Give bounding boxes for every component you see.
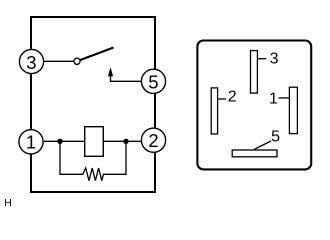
junction dot left [57, 139, 62, 144]
svg-text:2: 2 [148, 130, 158, 151]
switch pivot contact [74, 58, 80, 64]
connector housing (rounded) [197, 41, 311, 170]
relay schematic outline box [31, 17, 155, 192]
svg-text:H: H [4, 197, 12, 209]
svg-text:3: 3 [270, 51, 279, 68]
pin 2 leader tick [218, 98, 226, 100]
switch blade (open contact arm) [80, 48, 113, 61]
relay coil [85, 127, 104, 157]
connector pin 3 slot [251, 51, 258, 94]
svg-text:5: 5 [148, 72, 158, 93]
actuation arrow head [108, 67, 113, 76]
terminal 1 circle [19, 130, 43, 154]
pin 5 leader tick [253, 141, 271, 150]
connector pin 1 slot [289, 87, 297, 133]
wire: terminal 3 to switch pivot [44, 60, 74, 62]
resistor branch with zigzag resistor [60, 141, 126, 180]
terminal 2 circle [141, 128, 165, 152]
svg-text:3: 3 [26, 52, 36, 73]
wire: arrow corner to terminal 5 [111, 75, 142, 82]
terminal 3 circle [19, 49, 43, 73]
svg-text:1: 1 [269, 91, 278, 108]
junction dot right [123, 139, 128, 144]
connector pin 2 slot [211, 88, 217, 134]
wire: terminal 1 to terminal 2 (through coil) [44, 140, 142, 142]
pin 3 leader tick [257, 58, 266, 60]
svg-text:2: 2 [228, 89, 237, 106]
terminal 5 circle [141, 69, 165, 93]
connector pin 5 slot [232, 150, 277, 157]
svg-text:5: 5 [271, 129, 280, 146]
pin 1 leader tick [279, 97, 290, 99]
svg-text:1: 1 [26, 131, 36, 152]
